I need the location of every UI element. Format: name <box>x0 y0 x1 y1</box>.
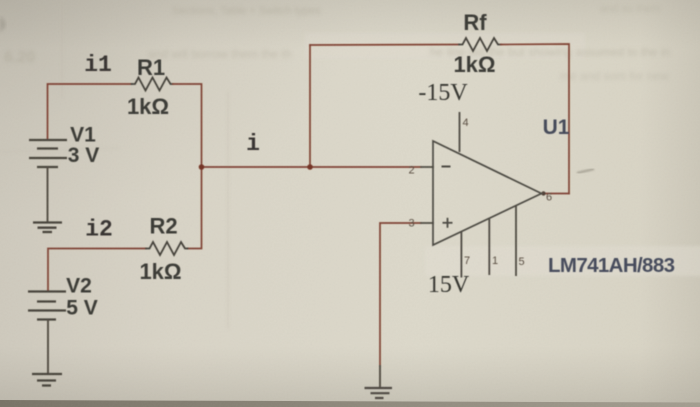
stray pen tick artifact <box>577 169 594 173</box>
dark photo corner top-left <box>0 16 6 33</box>
bottom dark band <box>0 400 700 407</box>
junction node i <box>199 164 205 170</box>
pin number labels <box>409 117 553 268</box>
pin 4 line <box>459 112 461 152</box>
ground under V1 <box>33 223 62 233</box>
op-amp U1 triangle <box>433 141 542 245</box>
op-amp minus sign <box>442 166 451 168</box>
wire top to Rf left <box>310 44 459 47</box>
component labels, bold sans <box>66 10 675 320</box>
wire op-amp output <box>542 193 570 195</box>
ground at noninverting input <box>365 388 393 398</box>
pin 5 line <box>515 206 517 276</box>
supply annotations, serif <box>418 80 469 298</box>
faint bleed-through artifacts (decorative) <box>4 3 670 83</box>
junction output node <box>541 191 545 195</box>
wire V2 minus to ground <box>47 320 49 375</box>
pin 2 stub <box>421 166 433 168</box>
ground under V2 <box>32 374 62 386</box>
wire riser lower segment to ground <box>379 365 381 388</box>
wire Rf right down to output <box>501 44 569 194</box>
current labels, bold mono <box>84 52 260 243</box>
wire R2 right to node i <box>188 167 202 249</box>
wire V1 plus to R1 left <box>48 84 132 140</box>
resistor R1 <box>132 78 174 91</box>
resistor R2 <box>146 242 188 255</box>
junction feedback node <box>307 164 313 170</box>
pin 3 stub <box>421 222 433 224</box>
pin 7 line <box>460 232 462 278</box>
wire R1 right to node i <box>173 84 202 167</box>
wire V2 plus to R2 left <box>48 249 146 292</box>
wire node i to op-amp inverting input <box>202 166 422 168</box>
wire feedback riser <box>309 45 311 167</box>
wire V1 minus to ground <box>47 167 49 223</box>
wire op-amp noninverting input to ground riser <box>380 223 421 366</box>
faint lighter band right-middle <box>305 33 700 276</box>
resistor Rf <box>459 38 501 51</box>
battery V2 <box>28 292 66 320</box>
battery V1 <box>29 140 67 167</box>
op-amp plus sign <box>443 218 453 228</box>
pin 1 line <box>488 218 490 275</box>
